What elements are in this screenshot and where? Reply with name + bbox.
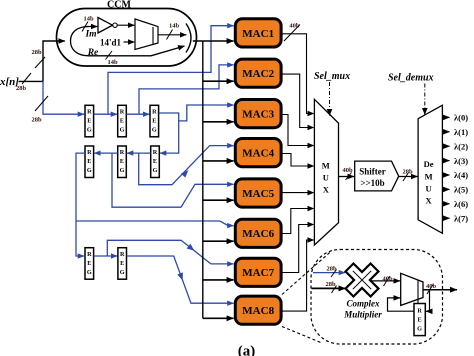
svg-text:E: E: [120, 158, 124, 165]
svg-text:R: R: [152, 109, 157, 116]
wire 28b blue into X: [313, 272, 345, 274]
slash X out: [384, 277, 390, 287]
svg-text:G: G: [120, 269, 125, 276]
svg-text:U: U: [426, 184, 432, 194]
wire x[n] input: [19, 80, 44, 82]
arrow mid diagonal MAC4: [181, 168, 191, 178]
wire out lambda7: [442, 217, 449, 219]
adder inner bar to REG: [417, 281, 419, 304]
svg-text:Sel_demux: Sel_demux: [388, 73, 434, 84]
wire Re: [89, 46, 185, 56]
MAC6: [235, 219, 281, 247]
wire tap R5 to MAC5: [112, 153, 234, 207]
slash 28b up: [35, 57, 45, 68]
svg-text:28b: 28b: [31, 49, 42, 56]
wire bus to MAC4: [203, 160, 234, 162]
svg-text:G: G: [87, 269, 92, 276]
svg-text:MAC2: MAC2: [242, 68, 274, 80]
slash 28b down: [35, 96, 48, 111]
dashed callout lower from MAC8: [282, 327, 322, 344]
MUX letters: [322, 161, 330, 195]
arrow mid diagonal MAC8: [177, 272, 185, 281]
svg-text:E: E: [418, 317, 422, 324]
inverter bubble: [113, 23, 117, 27]
wire inverter to mux: [117, 24, 134, 26]
svg-text:14'd1: 14'd1: [100, 37, 122, 47]
arrow mid diagonal MAC7: [187, 244, 197, 253]
MAC2: [235, 59, 281, 87]
svg-text:14b: 14b: [169, 23, 180, 30]
shifter block: [355, 161, 399, 191]
CCM inner right arc: [186, 24, 191, 53]
svg-text:M: M: [322, 161, 330, 171]
wire MAC8 out to MUX: [281, 240, 314, 311]
wire feedback into adder: [388, 298, 415, 311]
svg-text:(a): (a): [238, 344, 256, 356]
svg-text:R: R: [120, 109, 125, 116]
register R7: [85, 248, 94, 280]
svg-text:MAC8: MAC8: [242, 305, 274, 317]
wire output down into REG: [426, 290, 430, 312]
svg-text:G: G: [152, 127, 157, 134]
demux DeMUX main: [418, 105, 442, 233]
wire x[n] down to REG chain (blue): [43, 81, 84, 114]
svg-text:E: E: [153, 158, 157, 165]
svg-text:E: E: [152, 118, 156, 125]
svg-text:R: R: [87, 149, 92, 156]
slash shifter out: [403, 173, 409, 182]
slash Re: [106, 51, 113, 60]
svg-text:40b: 40b: [382, 275, 393, 282]
wire Sel_demux dashed: [424, 84, 426, 115]
CCM outer oval: [57, 9, 197, 67]
wire MAC6 out to MUX: [281, 209, 314, 234]
MAC1: [235, 19, 281, 47]
MAC5: [235, 179, 281, 207]
svg-text:R: R: [120, 149, 125, 156]
slash adder out: [427, 285, 433, 295]
svg-text:E: E: [120, 118, 124, 125]
register R6: [85, 146, 94, 178]
wire out lambda2: [442, 145, 449, 147]
svg-text:40b: 40b: [289, 23, 300, 30]
CCM inner left arc: [71, 27, 90, 56]
wire MAC3 out to MUX: [281, 115, 314, 146]
svg-text:MAC7: MAC7: [242, 267, 274, 279]
slash Im 14b: [82, 22, 88, 32]
wire MAC1 out to MUX: [281, 34, 314, 114]
wire out lambda6: [442, 203, 449, 205]
svg-text:40b: 40b: [426, 283, 437, 290]
svg-text:28b: 28b: [326, 266, 337, 273]
svg-text:R: R: [87, 109, 92, 116]
wire R3 down to R4: [159, 113, 179, 153]
svg-text:G: G: [153, 167, 158, 174]
register R5: [118, 146, 127, 178]
svg-text:λ(5): λ(5): [454, 185, 468, 195]
wire shifter out 28b: [399, 176, 418, 178]
svg-text:28b: 28b: [31, 117, 42, 124]
wire bus to MAC2: [203, 80, 234, 82]
register R4: [151, 146, 160, 178]
wire adder output 40b: [423, 289, 457, 291]
wire R2 to R3: [126, 113, 149, 115]
svg-text:>>10b: >>10b: [360, 178, 384, 188]
svg-text:MAC4: MAC4: [242, 148, 274, 160]
svg-text:Sel_mux: Sel_mux: [314, 71, 350, 82]
svg-text:E: E: [120, 260, 124, 267]
svg-text:Multiplier: Multiplier: [343, 310, 382, 320]
wire bus to MAC6: [203, 240, 234, 242]
svg-text:R: R: [120, 251, 125, 258]
wire Sel_mux dashed: [329, 82, 331, 116]
wire R6 down to R7: [76, 153, 85, 256]
wire bus to MAC8: [203, 317, 234, 319]
svg-text:Re: Re: [87, 48, 99, 58]
adder mux (in oval): [401, 273, 423, 305]
svg-text:X: X: [323, 185, 330, 195]
register R2: [118, 105, 127, 137]
wire X out 40b: [372, 280, 401, 282]
dashed callout upper from MAC8: [282, 251, 332, 295]
svg-text:Shifter: Shifter: [359, 167, 386, 177]
wire R5 to R6: [94, 152, 117, 154]
svg-text:G: G: [417, 326, 422, 333]
svg-text:MAC6: MAC6: [242, 228, 274, 240]
svg-text:R: R: [153, 149, 158, 156]
slash black 28b: [332, 286, 337, 294]
MAC4: [235, 139, 281, 167]
wire R1 to R2: [94, 113, 117, 115]
wire tap R7 to MAC7: [107, 240, 233, 264]
svg-text:λ(0): λ(0): [454, 113, 468, 123]
DeMUX letters: [424, 159, 434, 206]
mux MUX main: [314, 99, 338, 245]
svg-text:28b: 28b: [325, 281, 336, 288]
svg-text:λ(7): λ(7): [454, 213, 468, 223]
register R1: [85, 105, 94, 137]
multiplier X symbol: [337, 255, 387, 305]
svg-text:Complex: Complex: [347, 299, 380, 309]
slash blue 28b: [331, 270, 337, 278]
shifter text: [359, 167, 386, 189]
mux U1 trapezoid (in CCM): [135, 19, 158, 50]
svg-text:G: G: [87, 167, 92, 174]
svg-text:R: R: [87, 251, 92, 258]
register R8: [118, 248, 127, 280]
svg-text:14b: 14b: [83, 16, 94, 23]
wire MAC5 out to MUX: [281, 192, 314, 194]
svg-text:U: U: [323, 173, 329, 183]
slash mux out: [167, 30, 173, 40]
svg-text:14b: 14b: [107, 59, 118, 66]
wire MUX out 40b: [339, 176, 355, 178]
wire CCM output to MAC1: [193, 40, 234, 42]
wire out lambda3: [442, 160, 449, 162]
wire tap R2 to MAC2: [139, 65, 234, 114]
svg-text:E: E: [87, 158, 91, 165]
wire x[n] up to CCM: [43, 41, 65, 81]
register R3: [150, 105, 159, 137]
wire tap R6 to MAC6: [76, 221, 234, 226]
svg-text:M: M: [425, 171, 433, 181]
slash x[n] 28b: [22, 73, 31, 84]
wire tap R8 to MAC8: [127, 256, 234, 303]
MAC7: [235, 258, 281, 286]
svg-text:X: X: [426, 196, 433, 206]
dashed oval complex multiplier detail: [311, 250, 443, 345]
wire MAC2 out to MUX: [281, 74, 314, 127]
svg-text:λ(3): λ(3): [454, 156, 468, 166]
svg-text:λ(1): λ(1): [454, 127, 468, 137]
wire CCM bus vertical: [202, 41, 204, 318]
svg-text:G: G: [87, 127, 92, 134]
register R9 (in oval): [414, 304, 425, 336]
svg-text:MAC1: MAC1: [242, 28, 274, 40]
wire tap R3 to MAC3: [179, 105, 234, 121]
svg-text:MAC5: MAC5: [242, 188, 274, 200]
svg-text:R: R: [417, 308, 422, 315]
svg-text:G: G: [120, 127, 125, 134]
svg-text:MAC3: MAC3: [242, 109, 274, 121]
svg-text:G: G: [120, 167, 125, 174]
wire out lambda4: [442, 174, 449, 176]
wire R4 to R5: [127, 152, 151, 154]
wire tap R4 to MAC4: [139, 146, 234, 185]
svg-text:λ(2): λ(2): [454, 141, 468, 151]
wire Im input: [86, 26, 97, 28]
wire out lambda5: [442, 188, 449, 190]
wire bus to MAC5: [203, 199, 234, 201]
svg-text:28b: 28b: [402, 168, 413, 175]
wire bus to MAC3: [203, 121, 234, 123]
mux U1 inner bar: [152, 27, 154, 45]
wire bus to MAC7: [203, 279, 234, 281]
MAC3: [235, 100, 281, 128]
wire R7 to R8: [94, 255, 118, 257]
wire MAC4 out to MUX: [281, 154, 314, 167]
wire mux output 14b: [158, 34, 186, 36]
wire out lambda0: [442, 116, 449, 118]
svg-text:28b: 28b: [16, 85, 27, 92]
inverter NOT gate: [98, 18, 113, 34]
label Complex Multiplier: [343, 299, 382, 320]
svg-text:λ(4): λ(4): [454, 170, 468, 180]
svg-text:40b: 40b: [342, 167, 353, 174]
svg-text:De: De: [424, 159, 434, 169]
wire 14'd1 to mux: [124, 41, 135, 43]
svg-text:Im: Im: [84, 30, 96, 40]
svg-text:E: E: [87, 260, 91, 267]
svg-text:E: E: [87, 118, 91, 125]
wire MAC7 out to MUX: [281, 225, 314, 273]
MAC8: [235, 296, 281, 324]
slash MUX out: [346, 173, 352, 181]
wire 28b black into X: [312, 287, 346, 289]
wire tap R1 to MAC1: [108, 26, 234, 115]
slash 40b MAC1: [284, 25, 300, 42]
svg-text:λ(6): λ(6): [454, 199, 468, 209]
wire out lambda1: [442, 131, 449, 133]
